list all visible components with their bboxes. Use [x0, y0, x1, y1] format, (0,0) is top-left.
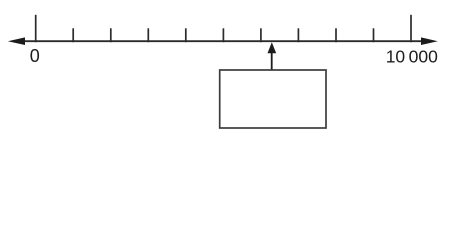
answer box — [220, 70, 326, 128]
left arrowhead — [8, 37, 25, 45]
tick 9000 — [373, 28, 375, 42]
tick 1000 — [72, 28, 74, 42]
tick 2000 — [110, 28, 112, 42]
tick 4000 — [185, 28, 187, 42]
right arrowhead — [421, 37, 438, 45]
svg-text:10 000: 10 000 — [386, 47, 438, 67]
pointer arrow shaft — [271, 51, 273, 70]
tick 7000 — [297, 28, 299, 42]
tick 6000 — [260, 28, 262, 42]
tick 3000 — [147, 28, 149, 42]
tick 5000 — [222, 28, 224, 42]
tick 10000 (tall) — [410, 15, 412, 42]
pointer arrowhead — [268, 42, 277, 53]
tick 0 (tall) — [35, 15, 37, 42]
number line — [20, 40, 425, 42]
tick 8000 — [335, 28, 337, 42]
svg-text:0: 0 — [30, 46, 40, 66]
